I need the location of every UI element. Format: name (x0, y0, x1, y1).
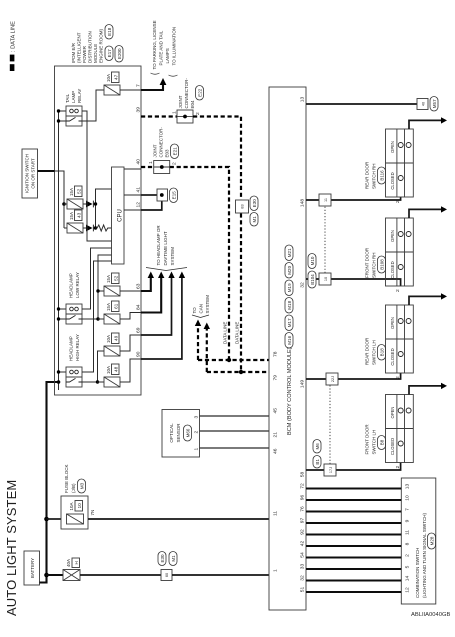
svg-text:AUTO LIGHT SYSTEM: AUTO LIGHT SYSTEM (4, 480, 19, 616)
svg-text:FRONT DOOR: FRONT DOOR (365, 247, 370, 278)
wire low relay coil to CPU (82, 248, 112, 309)
svg-text:60: 60 (165, 573, 169, 577)
wire high relay contact to fuse bus (82, 351, 104, 382)
svg-text:E18: E18 (107, 27, 112, 36)
svg-text:3: 3 (194, 416, 200, 419)
wire headlamp output 84 arrow (141, 278, 161, 313)
wire diode join to CPU (96, 189, 112, 228)
BCM body control module box (269, 87, 306, 610)
svg-text:CONNECTOR-: CONNECTOR- (159, 127, 164, 158)
svg-text:SENSOR: SENSOR (176, 423, 181, 443)
joint connector E15 (157, 189, 168, 201)
svg-text:2: 2 (395, 289, 401, 292)
svg-text:OPEN: OPEN (390, 141, 395, 153)
svg-text:2: 2 (395, 466, 401, 469)
wire BCM 32 to front door switch RH (306, 279, 401, 286)
fuse 10A 48 (98, 381, 105, 383)
svg-text:E22: E22 (198, 88, 203, 97)
svg-text:2: 2 (172, 162, 178, 165)
svg-text:40A: 40A (66, 559, 71, 567)
svg-text:JOINT: JOINT (178, 95, 183, 108)
connector 17J (M6/B1) (324, 464, 336, 476)
svg-text:SYSTEM: SYSTEM (170, 247, 175, 266)
wire pin 40 data line to E21 (141, 166, 154, 168)
ignition switch box (22, 149, 38, 198)
svg-text:COMBINATION SWITCH: COMBINATION SWITCH (415, 548, 420, 598)
svg-text:17J: 17J (329, 467, 333, 473)
svg-text:1: 1 (194, 448, 200, 451)
svg-text:92: 92 (300, 529, 306, 535)
svg-text:ABLIIA0040GB: ABLIIA0040GB (411, 612, 450, 618)
connector M57 stub (417, 99, 428, 110)
svg-text:B8: B8 (380, 439, 385, 445)
svg-text:11: 11 (405, 530, 411, 535)
svg-text:BCM (BODY CONTROL MODULE): BCM (BODY CONTROL MODULE) (287, 347, 293, 435)
IPDM E/R module box (55, 66, 142, 395)
svg-text:H: H (74, 561, 79, 564)
bracket CAN (192, 315, 209, 318)
svg-text:TO PARKING, LICENSE: TO PARKING, LICENSE (152, 20, 157, 69)
svg-text:13: 13 (300, 97, 306, 103)
joint connector E03 (E21) (154, 161, 170, 174)
svg-text:PLATE AND TAIL: PLATE AND TAIL (159, 30, 164, 65)
svg-text:10A: 10A (106, 366, 111, 374)
ground front door switch RH (409, 209, 441, 218)
wire BCM 148 to rear door switch RH (306, 197, 401, 200)
node battery-10A junction (44, 517, 49, 522)
fuse 15A 52 (ignition) (64, 203, 86, 205)
svg-text:HEADLAMP: HEADLAMP (69, 336, 74, 361)
svg-text:32: 32 (300, 282, 306, 288)
svg-text:: DATA LINE: : DATA LINE (11, 21, 17, 52)
wire high relay coil to CPU (82, 261, 112, 372)
svg-text:90: 90 (136, 351, 142, 357)
battery (24, 551, 40, 585)
svg-text:15A: 15A (69, 188, 74, 196)
wire pin 39 data line to E22 (141, 115, 177, 117)
svg-text:83: 83 (241, 204, 245, 208)
svg-text:10A: 10A (106, 74, 111, 82)
wire fuse 47 to pin 7 (120, 89, 141, 91)
svg-text:10: 10 (405, 495, 411, 501)
svg-text:8: 8 (405, 542, 411, 545)
svg-text:(J/B): (J/B) (71, 483, 76, 493)
wire fuse 61 to pin 84 (120, 313, 141, 320)
svg-text:MODULE: MODULE (93, 44, 98, 63)
svg-text:15A: 15A (69, 212, 74, 220)
svg-text:7: 7 (405, 508, 411, 511)
svg-text:TO: TO (192, 307, 197, 314)
wire pin 12 to E15 (141, 201, 162, 210)
wire 10A branch (47, 518, 62, 520)
svg-text:CLOSED: CLOSED (390, 261, 395, 278)
diode D1 (86, 201, 93, 208)
svg-text:OPEN: OPEN (390, 317, 395, 329)
diode D2 (86, 225, 93, 232)
legend data line (10, 64, 15, 71)
svg-text:54: 54 (300, 552, 306, 558)
connector 22J (M6/B1) (326, 373, 338, 385)
wires BCM to combination switch (306, 489, 401, 593)
wire low relay contact to fuse bus (82, 291, 104, 319)
svg-text:LAMPS: LAMPS (165, 48, 170, 63)
svg-text:52: 52 (114, 275, 119, 281)
svg-text:REAR DOOR: REAR DOOR (365, 337, 370, 365)
svg-text:32: 32 (300, 575, 306, 581)
svg-text:45: 45 (273, 408, 279, 414)
svg-text:M1: M1 (252, 216, 257, 223)
wire fuse 49 to pin 69 (120, 335, 141, 351)
wire 40A to BCM pin 1 (80, 574, 161, 576)
svg-text:IPDM E/R: IPDM E/R (71, 42, 76, 63)
wire ignition feed (38, 170, 55, 172)
svg-text:E21: E21 (173, 147, 178, 156)
svg-text:M66: M66 (186, 428, 191, 437)
connector 10 (M10/B104) (319, 273, 331, 285)
wire 10A to BCM pin 11 (88, 518, 269, 520)
svg-text:M28: M28 (430, 536, 435, 545)
connector grid M1/E30 on trunk 1 (236, 200, 249, 213)
svg-text:40: 40 (136, 159, 142, 165)
wire to CAN system arrow 1 (197, 326, 199, 360)
svg-text:2: 2 (194, 431, 200, 434)
ground front door switch LH (409, 386, 441, 395)
svg-text:148: 148 (300, 199, 306, 207)
wire pin 7 to parking lamps arrow (141, 85, 163, 90)
wire data line drop to BCM 79 (207, 371, 269, 373)
svg-text:SWITCH LH: SWITCH LH (372, 430, 377, 455)
fuse 10A 49 (104, 346, 120, 356)
svg-text:2: 2 (395, 376, 401, 379)
bracket headlamp system (146, 268, 187, 271)
svg-text:10: 10 (77, 503, 82, 509)
svg-text:49: 49 (114, 335, 119, 341)
combination switch box (401, 478, 436, 604)
svg-text:39: 39 (136, 107, 142, 113)
in-line connector link M10/B104 (324, 206, 326, 273)
svg-text:13: 13 (405, 484, 411, 490)
wire headlamp output 69 arrow (141, 278, 172, 335)
joint connector E04 (E22) (177, 110, 193, 123)
svg-text:TO ILLUMINATION: TO ILLUMINATION (172, 27, 177, 66)
wire 40A branch (47, 574, 64, 576)
svg-text:CLOSED: CLOSED (390, 172, 395, 189)
svg-text:DATA LINE: DATA LINE (223, 322, 228, 344)
svg-text:E15: E15 (172, 191, 177, 200)
ground rear door switch LH (409, 296, 441, 305)
headlamp high relay (59, 371, 67, 373)
wire pin 41 to E15 (141, 194, 157, 196)
svg-text:14: 14 (405, 576, 411, 582)
svg-text:41: 41 (136, 187, 142, 193)
wire to CAN system arrow 2 (206, 329, 208, 372)
svg-text:SWITCH LH: SWITCH LH (372, 340, 377, 365)
svg-text:79: 79 (273, 375, 279, 381)
svg-text:2: 2 (395, 200, 401, 203)
svg-text:M16: M16 (287, 335, 292, 344)
svg-text:(INTELLIGENT: (INTELLIGENT (77, 32, 82, 63)
svg-text:78: 78 (273, 351, 279, 357)
svg-text:B104: B104 (310, 274, 315, 285)
fuse 15A 52b (104, 286, 120, 296)
svg-text:1: 1 (172, 111, 178, 114)
svg-text:CONNECTOR-: CONNECTOR- (184, 78, 189, 109)
wire BCM 58 to front door switch LH (306, 463, 401, 471)
svg-text:22J: 22J (331, 376, 335, 382)
svg-text:CPU: CPU (118, 209, 124, 222)
svg-text:DISTRIBUTION: DISTRIBUTION (88, 31, 93, 63)
svg-text:BATTERY: BATTERY (30, 558, 35, 578)
svg-text:SYSTEM: SYSTEM (205, 295, 210, 314)
svg-text:72: 72 (300, 483, 306, 489)
wire tail relay coil to CPU (82, 111, 112, 241)
svg-text:IGNITION SWITCH: IGNITION SWITCH (25, 154, 30, 193)
resistor R1 (96, 225, 112, 231)
svg-text:2: 2 (195, 112, 201, 115)
wire sensor pin 1 to BCM (200, 447, 270, 449)
svg-text:POWER: POWER (82, 45, 87, 63)
svg-text:M20: M20 (287, 265, 292, 274)
svg-text:48: 48 (114, 366, 119, 372)
svg-text:TAIL: TAIL (65, 93, 70, 103)
svg-text:B18: B18 (380, 348, 385, 357)
svg-text:15A: 15A (106, 303, 111, 311)
wire tail relay contact to fuse 47 (82, 90, 104, 121)
svg-text:CLOSED: CLOSED (390, 348, 395, 365)
front door switch LH (365, 395, 414, 469)
svg-text:E200: E200 (117, 48, 122, 59)
svg-text:10A: 10A (69, 502, 74, 510)
svg-text:M10: M10 (310, 256, 315, 265)
svg-text:SWITCH RH: SWITCH RH (372, 253, 377, 279)
svg-text:7N: 7N (90, 510, 95, 516)
wire data line drop to BCM 78 (198, 359, 269, 361)
svg-text:10: 10 (324, 277, 328, 281)
svg-text:M21: M21 (287, 248, 292, 257)
svg-text:42: 42 (300, 541, 306, 547)
bracket parking (151, 73, 160, 74)
fuse 15A 61 (98, 318, 104, 320)
svg-text:7: 7 (136, 84, 142, 87)
svg-text:149: 149 (300, 380, 306, 388)
svg-text:LAMP: LAMP (71, 91, 76, 103)
svg-text:46: 46 (273, 448, 279, 454)
svg-text:REAR DOOR: REAR DOOR (365, 161, 370, 189)
fuse 10A 10 (67, 514, 84, 524)
svg-text:52: 52 (77, 188, 82, 194)
svg-text:M1: M1 (171, 555, 176, 562)
fuse block J/B box (61, 496, 88, 529)
ground rear door switch RH (409, 120, 441, 129)
CPU box (112, 167, 125, 264)
wire headlamp output 63 arrow (141, 278, 151, 291)
svg-text:OPEN: OPEN (390, 230, 395, 242)
svg-text:FRONT DOOR: FRONT DOOR (365, 424, 370, 455)
svg-text:1: 1 (273, 569, 279, 572)
svg-text:15A: 15A (106, 275, 111, 283)
svg-text:47: 47 (114, 74, 119, 80)
connector 11 (M10/B104) (319, 194, 331, 206)
svg-text:63: 63 (136, 283, 142, 289)
svg-text:LOW RELAY: LOW RELAY (75, 272, 80, 298)
svg-text:(LIGHTING AND TURN SIGNAL SWIT: (LIGHTING AND TURN SIGNAL SWITCH) (422, 512, 427, 598)
svg-text:M18: M18 (287, 300, 292, 309)
wire CPU stubs to pins 40 41 12 (124, 169, 141, 210)
svg-text:CLOSED: CLOSED (390, 438, 395, 455)
optical sensor (162, 410, 200, 458)
svg-text:ON OR START: ON OR START (31, 158, 36, 189)
wire BCM 149 to rear door switch LH (306, 373, 401, 379)
wire data line trunk 2 (170, 167, 229, 360)
connector grid E30/M1 on 40A line (161, 570, 172, 581)
svg-text:61: 61 (114, 303, 119, 309)
svg-text:11: 11 (324, 198, 328, 202)
wire BCM 13 to M57 (306, 103, 417, 105)
in-line connector link M6/B1 (329, 385, 331, 464)
svg-text:5: 5 (405, 565, 411, 568)
svg-text:DAYTIME LIGHT: DAYTIME LIGHT (163, 231, 168, 265)
svg-text:43: 43 (77, 212, 82, 218)
wire sensor pin 2 to BCM (200, 430, 270, 432)
svg-text:OPEN: OPEN (390, 407, 395, 419)
svg-text:21: 21 (273, 432, 279, 438)
svg-text:DATA LINE: DATA LINE (235, 322, 240, 344)
svg-text:E30: E30 (252, 199, 257, 208)
svg-text:FUSE BLOCK: FUSE BLOCK (64, 464, 69, 493)
svg-text:CAN: CAN (199, 304, 204, 314)
svg-text:33: 33 (300, 564, 306, 570)
front door switch RH (365, 218, 414, 292)
node ignition bus fuse52 tap (62, 202, 66, 206)
svg-text:1: 1 (148, 161, 154, 164)
internal battery bus (58, 111, 60, 390)
node battery-40A junction (44, 573, 49, 578)
wire data line trunk 1 (193, 117, 241, 373)
svg-text:M19: M19 (287, 283, 292, 292)
wire fuse 52b to pin 63 (120, 290, 141, 292)
tail lamp relay (59, 111, 67, 121)
svg-text:B108: B108 (380, 259, 385, 270)
svg-text:40: 40 (422, 102, 426, 106)
wire 40A line lower (172, 574, 269, 576)
svg-text:76: 76 (300, 506, 306, 512)
svg-text:97: 97 (300, 518, 306, 524)
svg-text:SWITCH RH: SWITCH RH (372, 164, 377, 190)
svg-text:OPTICAL: OPTICAL (169, 423, 174, 443)
svg-text:M17: M17 (287, 318, 292, 327)
svg-text:E03: E03 (165, 149, 170, 158)
headlamp low relay (59, 309, 67, 319)
svg-text:58: 58 (300, 472, 306, 478)
svg-text:B1: B1 (315, 459, 320, 465)
svg-text:E04: E04 (190, 100, 195, 109)
svg-text:M57: M57 (432, 99, 437, 108)
svg-text:RELAY: RELAY (77, 89, 82, 103)
svg-text:84: 84 (136, 304, 142, 310)
svg-text:M3: M3 (80, 482, 85, 489)
svg-text:E17: E17 (107, 49, 112, 58)
wire battery main feed (40, 382, 59, 583)
svg-text:12: 12 (136, 202, 142, 208)
svg-text:B116: B116 (380, 170, 385, 181)
svg-text:11: 11 (273, 511, 279, 516)
fuse 10A 47 (104, 85, 120, 95)
svg-text:JOINT: JOINT (153, 144, 158, 157)
svg-text:9: 9 (405, 519, 411, 522)
svg-text:ENGINE ROOM): ENGINE ROOM) (99, 28, 104, 63)
svg-text:2: 2 (405, 554, 411, 557)
wire sensor pin 3 to BCM (200, 415, 270, 417)
svg-text:TO HEADLAMP OR: TO HEADLAMP OR (156, 225, 161, 266)
svg-text:E30: E30 (160, 554, 165, 563)
rear door switch RH (365, 129, 414, 203)
svg-text:12: 12 (405, 587, 411, 593)
wire fuse 48 to pin 90 (120, 359, 141, 382)
fusible link 40A H (63, 570, 80, 581)
fuse 15A 43 (ignition) (64, 227, 86, 229)
svg-text:M6: M6 (315, 443, 320, 450)
rear door switch LH (365, 305, 414, 379)
svg-text:69: 69 (136, 327, 142, 333)
svg-text:HEADLAMP: HEADLAMP (69, 273, 74, 298)
svg-text:96: 96 (300, 495, 306, 501)
svg-text:HIGH RELAY: HIGH RELAY (75, 334, 80, 361)
wire low beam sense to CPU (98, 255, 112, 291)
svg-text:51: 51 (300, 587, 306, 593)
wire headlamp output 90 arrow (141, 278, 182, 359)
svg-text:10A: 10A (106, 335, 111, 343)
